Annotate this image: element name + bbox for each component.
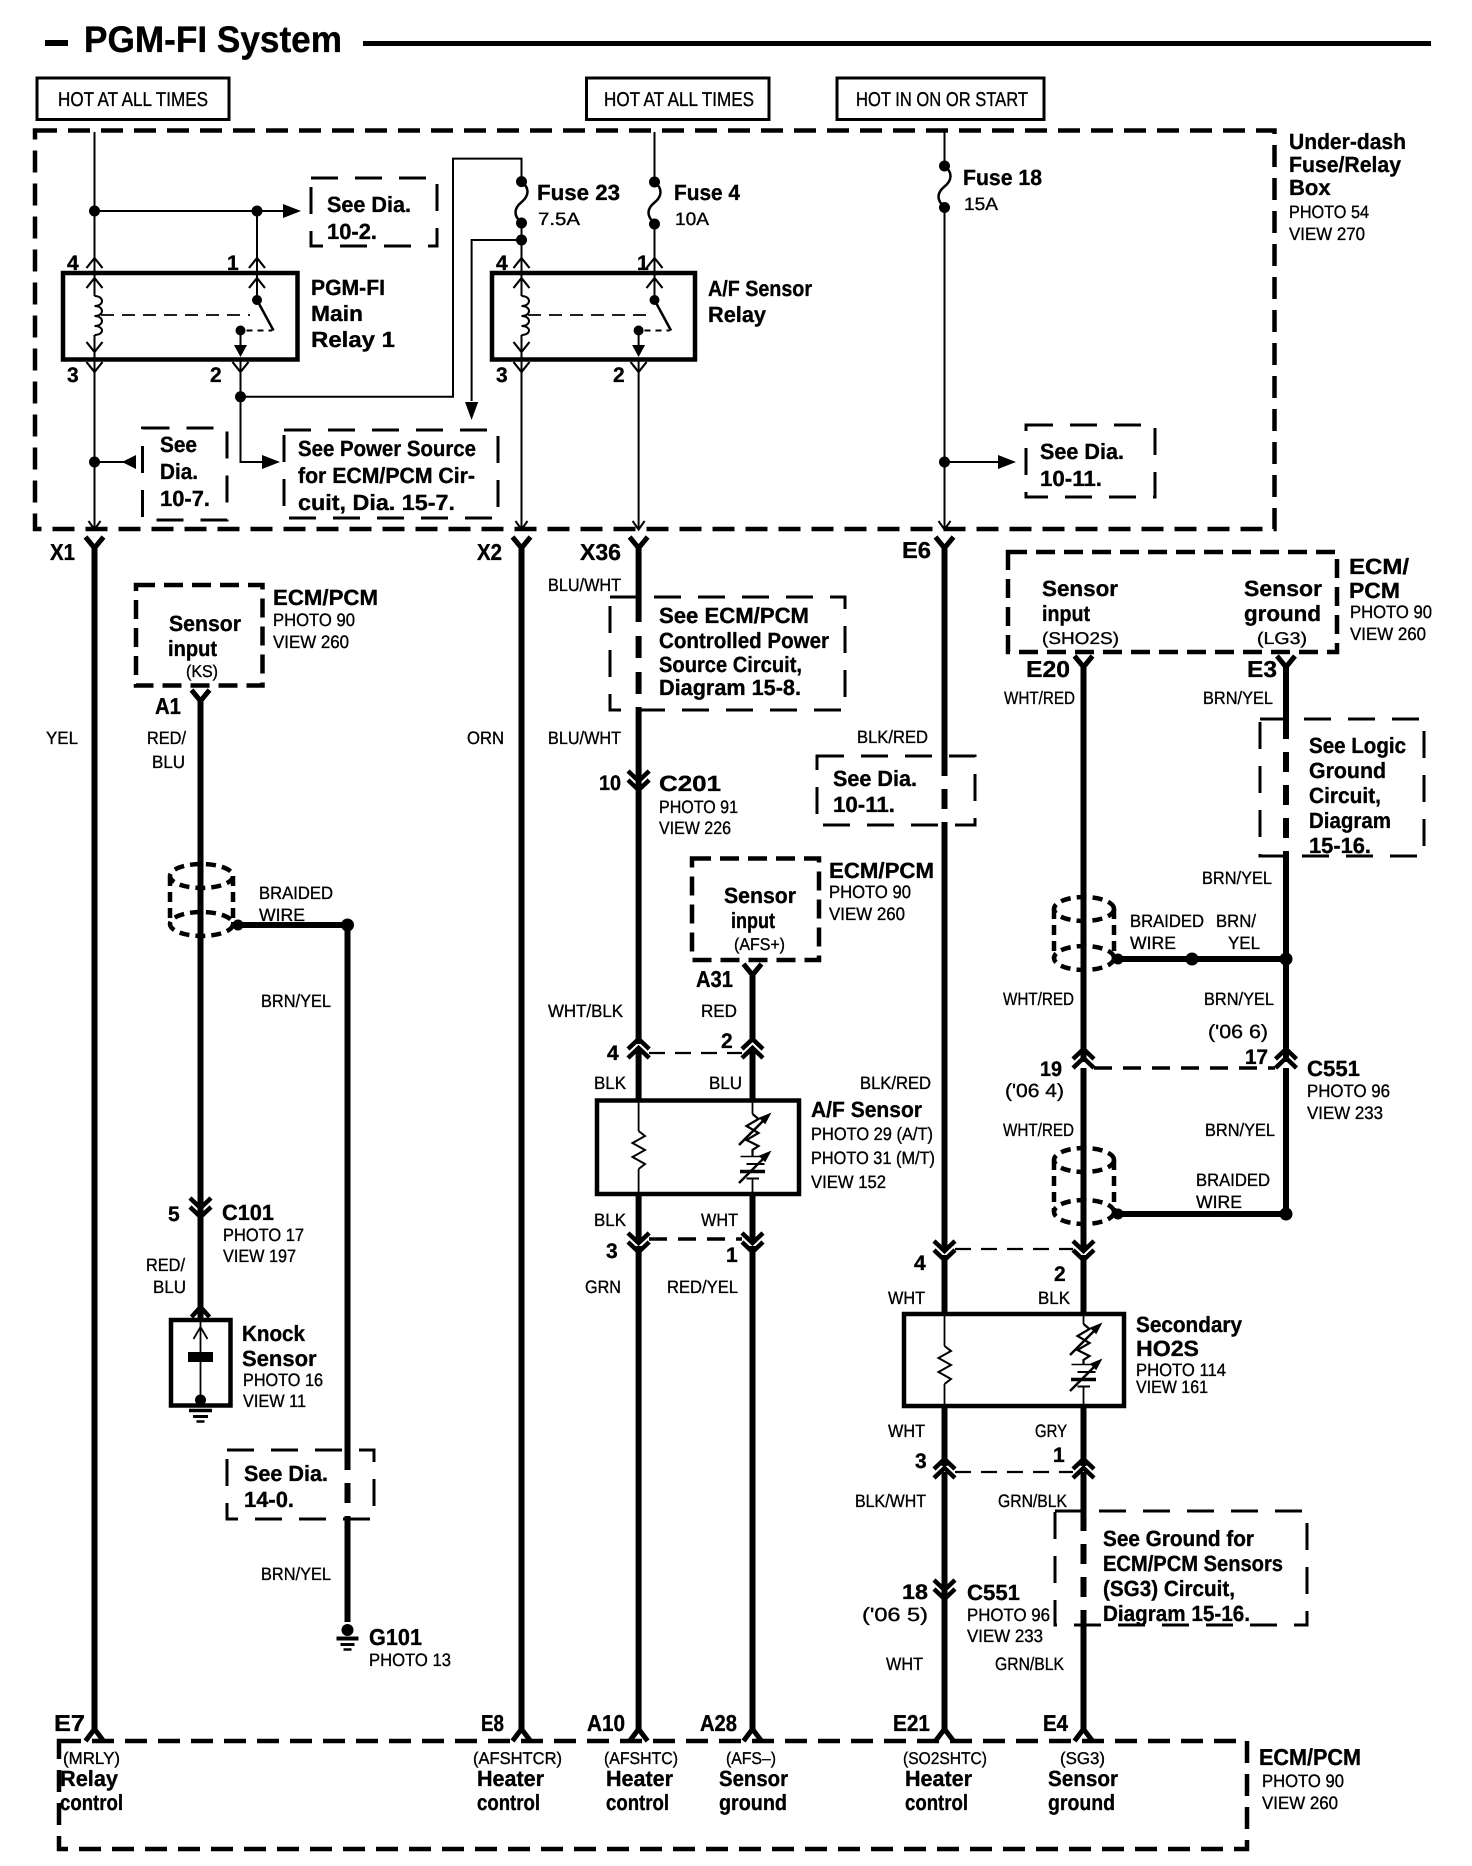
power source label: HOT AT ALL TIMES (middle) — [587, 78, 770, 120]
connector mating line pins 4-2 (dashed, HO2S) — [955, 1248, 1073, 1250]
fuse F4: Fuse 4 — [649, 177, 661, 230]
svg-text:for ECM/PCM Cir-: for ECM/PCM Cir- — [298, 463, 475, 488]
label: ECM/PCM PHOTO 90 VIEW 260 (bottom right) — [1259, 1744, 1361, 1813]
shield: braided wire cylinder on E20 (upper) — [1054, 897, 1114, 970]
junction dot on E3 — [1280, 953, 1293, 966]
svg-text:Sensor: Sensor — [724, 883, 796, 908]
relay pin 2 chevron — [233, 362, 249, 372]
wire end E21 (entry prongs) — [936, 1729, 954, 1741]
relay pin 1 chevrons — [249, 258, 265, 288]
svg-text:4: 4 — [67, 252, 79, 275]
wire E20 into HO2S pin 2 handled above; segment below HO2S to See Ground box — [1081, 1472, 1087, 1511]
svg-text:BLU: BLU — [709, 1073, 742, 1093]
svg-text:1: 1 — [637, 252, 649, 275]
connector A31 (Y symbol) — [696, 964, 762, 992]
A/F sensor heater resistor — [633, 1101, 646, 1195]
svg-text:WHT: WHT — [888, 1421, 925, 1441]
svg-text:See Ground for: See Ground for — [1103, 1526, 1254, 1551]
wire end A28 (entry prongs) — [744, 1729, 762, 1741]
A/F relay coil (pins 4-3) — [522, 273, 530, 360]
svg-text:ECM/PCM: ECM/PCM — [273, 585, 378, 610]
svg-text:('06 5): ('06 5) — [862, 1605, 928, 1626]
reference box: See Dia. 10-11. (upper) — [1026, 425, 1155, 497]
wire: BLK into HO2S — [1081, 1255, 1087, 1314]
svg-text:BLU/WHT: BLU/WHT — [548, 575, 621, 595]
svg-text:PHOTO 90: PHOTO 90 — [1262, 1771, 1344, 1791]
label: Under-dash Fuse/Relay Box — [1289, 129, 1406, 244]
svg-text:7.5A: 7.5A — [538, 209, 580, 229]
junction dot at shield — [233, 920, 244, 931]
reference box: See Logic Ground Circuit, Diagram 15-16. — [1260, 719, 1424, 858]
wire: drain dashed inside reference box — [345, 1450, 351, 1519]
label: Secondary HO2S PHOTO 114 VIEW 161 — [1136, 1312, 1243, 1397]
svg-text:(AFS+): (AFS+) — [734, 935, 785, 954]
svg-text:(KS): (KS) — [186, 662, 218, 681]
ground bars under knock sensor — [189, 1411, 212, 1422]
svg-text:Relay: Relay — [708, 302, 767, 327]
svg-text:VIEW 161: VIEW 161 — [1136, 1377, 1208, 1397]
wire exit arrow at E6 — [939, 521, 951, 530]
svg-text:BLU/WHT: BLU/WHT — [548, 728, 621, 748]
svg-text:control: control — [60, 1790, 123, 1815]
svg-text:X2: X2 — [477, 539, 502, 565]
svg-text:Ground: Ground — [1309, 758, 1386, 783]
svg-text:C201: C201 — [659, 771, 721, 796]
reference box: See Dia. 14-0. — [227, 1450, 374, 1519]
label: ECM/PCM PHOTO 90 VIEW 260 (top right) — [1349, 554, 1432, 644]
connector mating line pins 3-1 (dashed, HO2S) — [955, 1471, 1073, 1473]
svg-text:2: 2 — [1054, 1263, 1066, 1286]
wire: relay1 pin3 down to X1 — [94, 360, 96, 531]
power source label: HOT AT ALL TIMES (left) — [37, 78, 229, 120]
svg-text:VIEW 233: VIEW 233 — [967, 1626, 1043, 1646]
knock sensor element — [188, 1322, 213, 1406]
svg-text:C551: C551 — [1307, 1056, 1360, 1081]
svg-text:A31: A31 — [696, 966, 733, 992]
svg-text:18: 18 — [902, 1581, 928, 1604]
power source label: HOT IN ON OR START — [837, 78, 1044, 120]
svg-text:See Logic: See Logic — [1309, 733, 1406, 758]
wire: drop to relay pin 1 — [256, 211, 258, 273]
svg-text:BRN/YEL: BRN/YEL — [261, 991, 331, 1011]
svg-text:BLK: BLK — [594, 1073, 626, 1093]
svg-text:PHOTO 91: PHOTO 91 — [659, 797, 738, 817]
wire A31 (RED) to A/F sensor pin 2 — [750, 973, 756, 1041]
svg-text:('06 4): ('06 4) — [1005, 1081, 1064, 1102]
wire: battery feed to PGM-FI relay pin 4 — [94, 132, 96, 273]
A/F sensor cell (variable elements with arrows) — [739, 1101, 772, 1195]
svg-text:See ECM/PCM: See ECM/PCM — [659, 603, 809, 628]
svg-text:2: 2 — [721, 1030, 733, 1053]
wire X36 continues to A/F sensor pin 4 — [636, 707, 642, 1044]
svg-text:RED: RED — [701, 1001, 737, 1021]
svg-text:E3: E3 — [1247, 656, 1277, 682]
connector X36 (Y symbol) — [580, 537, 648, 565]
svg-text:See: See — [160, 432, 197, 457]
svg-text:A1: A1 — [155, 693, 181, 719]
svg-text:WIRE: WIRE — [1196, 1192, 1242, 1212]
svg-text:19: 19 — [1040, 1058, 1062, 1081]
wire: fuse 18 down to E6 — [944, 208, 946, 531]
svg-text:C551: C551 — [967, 1580, 1020, 1605]
svg-text:PHOTO 90: PHOTO 90 — [829, 882, 911, 902]
wire E3 lower segment to shield link — [1283, 1068, 1289, 1214]
label: BRAIDED WIRE (left) — [259, 883, 333, 925]
wire: GRY from HO2S pin 1 — [1081, 1406, 1087, 1466]
svg-text:VIEW 152: VIEW 152 — [811, 1172, 886, 1192]
wire: WHT from HO2S pin 3 — [942, 1406, 948, 1466]
svg-text:control: control — [477, 1790, 540, 1815]
ECM/PCM output box: Sensor input (AFS+) — [692, 859, 819, 961]
svg-text:GRN: GRN — [585, 1277, 621, 1297]
under-dash fuse/relay box (dashed enclosure) — [35, 131, 1275, 530]
wire: relay1 pin2 down and arrow to power source box — [241, 360, 281, 470]
wire end dot E3 — [1280, 1208, 1293, 1221]
reference box: See Dia. 10-7. — [143, 428, 228, 520]
wire: WHT into HO2S — [942, 1255, 948, 1314]
svg-text:Secondary: Secondary — [1136, 1312, 1243, 1337]
connector pins 4/2 chevrons (A/F sensor top) — [628, 1039, 763, 1058]
svg-text:See Power Source: See Power Source — [298, 436, 476, 461]
svg-text:10-11.: 10-11. — [1040, 466, 1102, 491]
connector X1 (Y symbol) — [50, 537, 104, 565]
svg-text:HOT AT ALL TIMES: HOT AT ALL TIMES — [58, 89, 208, 111]
ECM/PCM output box: Sensor input (KS) — [136, 585, 263, 686]
wire: shield drain link to E3 (upper) — [1112, 956, 1286, 962]
svg-text:WHT: WHT — [886, 1654, 923, 1674]
svg-text:2: 2 — [210, 364, 222, 387]
svg-text:WHT/BLK: WHT/BLK — [548, 1001, 623, 1021]
wire: ignition feed to Fuse 18 — [944, 132, 946, 166]
wire E3 continues down — [1283, 856, 1289, 1062]
svg-text:X1: X1 — [50, 539, 75, 565]
A/F relay pin 1 chevrons — [647, 258, 663, 288]
svg-text:A10: A10 — [587, 1710, 625, 1736]
wire: shield drain link to E3 (lower) — [1112, 1211, 1286, 1217]
wire X2 (ORN) to E8 — [519, 546, 525, 1729]
connector pins 4/2 chevrons (secondary HO2S top) — [934, 1241, 1094, 1260]
A/F relay pin 2 chevron — [631, 362, 647, 372]
svg-text:BLU: BLU — [152, 752, 185, 772]
svg-text:Dia.: Dia. — [160, 459, 198, 484]
wire end E8 (entry prongs) — [513, 1729, 531, 1741]
wire X36 dashed inside reference box — [636, 600, 642, 707]
svg-text:GRN/BLK: GRN/BLK — [998, 1491, 1067, 1511]
connector A1 (Y symbol) — [155, 690, 210, 719]
wire: branch arrow to See Dia. 10-2. — [95, 204, 302, 218]
svg-text:(LG3): (LG3) — [1257, 629, 1307, 648]
wire E3 dashed inside reference box — [1283, 719, 1289, 856]
wire E6 continues to secondary HO2S pin 4 — [942, 825, 948, 1249]
svg-text:Fuse/Relay: Fuse/Relay — [1289, 152, 1402, 177]
wire: BLK/WHT down from pin 3 — [942, 1472, 948, 1729]
svg-text:BRN/YEL: BRN/YEL — [1202, 868, 1272, 888]
svg-text:WHT: WHT — [888, 1288, 925, 1308]
svg-text:PHOTO 13: PHOTO 13 — [369, 1650, 451, 1670]
connector mating line pins 4-2 (dashed) — [649, 1052, 742, 1054]
reference box: See Power Source for ECM/PCM Circuit, Dia. 15-7. — [284, 430, 498, 518]
svg-text:GRY: GRY — [1035, 1421, 1067, 1441]
A/F relay pin 3 chevrons — [514, 342, 530, 372]
title: PGM-FI System — [45, 19, 1431, 60]
wire: fuse 4 to A/F relay pin 1 — [654, 224, 656, 273]
svg-text:Under-dash: Under-dash — [1289, 129, 1406, 154]
svg-text:15A: 15A — [964, 194, 998, 214]
connector X2 (Y symbol) — [477, 537, 531, 565]
svg-text:VIEW 197: VIEW 197 — [223, 1246, 296, 1266]
svg-text:VIEW 260: VIEW 260 — [829, 904, 905, 924]
svg-text:WHT/RED: WHT/RED — [1003, 1120, 1074, 1140]
svg-text:E4: E4 — [1043, 1710, 1068, 1736]
svg-text:PGM-FI System: PGM-FI System — [84, 19, 342, 60]
svg-text:Sensor: Sensor — [169, 611, 241, 636]
label: A/F Sensor PHOTO 29 (A/T) PHOTO 31 (M/T) VIEW 152 — [811, 1097, 935, 1192]
wire color label RED/BLU (lower) — [146, 1255, 186, 1297]
junction dot: fuse 23 output branch — [516, 235, 527, 246]
wire: shield drain link to BRN/YEL — [231, 922, 348, 928]
svg-text:A/F Sensor: A/F Sensor — [708, 276, 812, 301]
connector E3 (Y symbol) — [1247, 656, 1295, 682]
HO2S heater resistor — [939, 1314, 952, 1406]
svg-text:2: 2 — [613, 364, 625, 387]
svg-text:VIEW 233: VIEW 233 — [1307, 1103, 1383, 1123]
svg-text:3: 3 — [606, 1240, 618, 1263]
svg-text:Diagram: Diagram — [1309, 808, 1391, 833]
svg-text:PHOTO 29 (A/T): PHOTO 29 (A/T) — [811, 1124, 933, 1144]
svg-text:Knock: Knock — [242, 1321, 306, 1346]
wire: WHT from A/F sensor pin 1 — [750, 1194, 756, 1240]
ECM/PCM bottom box (dashed enclosure) — [59, 1741, 1247, 1849]
junction dot: relay1 pin2 branch — [235, 391, 246, 402]
svg-text:BRN/YEL: BRN/YEL — [1205, 1120, 1275, 1140]
svg-text:ORN: ORN — [467, 728, 504, 748]
relay coil (pins 4-3) — [95, 273, 103, 360]
svg-text:BRN/YEL: BRN/YEL — [1203, 688, 1273, 708]
svg-text:Main: Main — [311, 301, 363, 326]
svg-text:A28: A28 — [700, 1710, 737, 1736]
connector mating line pins 19-17 (dashed) — [1094, 1066, 1275, 1070]
value label: Fuse 23 7.5A — [537, 180, 620, 229]
wire exit arrow at X36 — [633, 521, 645, 530]
svg-text:BRN/YEL: BRN/YEL — [261, 1564, 331, 1584]
A/F relay switch blade (pin 1 to pin 2) — [632, 273, 671, 357]
svg-text:Fuse 23: Fuse 23 — [537, 180, 620, 205]
svg-text:10A: 10A — [675, 209, 709, 229]
ground G101 — [337, 1624, 359, 1650]
svg-text:10-7.: 10-7. — [160, 486, 210, 511]
shield: braided wire cylinder on A1 — [170, 864, 233, 936]
wire end chevron at knock sensor — [192, 1307, 210, 1317]
wire: relay1 pin2 loop to Fuse 23 input — [241, 159, 522, 397]
svg-text:C101: C101 — [222, 1200, 274, 1225]
svg-text:BLK/RED: BLK/RED — [860, 1073, 931, 1093]
svg-text:4: 4 — [496, 252, 508, 275]
wire color label RED/BLU (upper) — [147, 728, 186, 772]
svg-text:Sensor: Sensor — [242, 1346, 317, 1371]
svg-text:Diagram 15-16.: Diagram 15-16. — [1103, 1601, 1250, 1626]
svg-text:BLK/WHT: BLK/WHT — [855, 1491, 926, 1511]
splice dot on drain link — [1186, 953, 1199, 966]
svg-text:A/F Sensor: A/F Sensor — [811, 1097, 922, 1122]
connector E20 (Y symbol) — [1026, 656, 1093, 682]
label: C201 PHOTO 91 VIEW 226 — [659, 771, 738, 838]
svg-text:PCM: PCM — [1349, 578, 1400, 603]
wire: GRN down to A10 — [636, 1246, 642, 1729]
svg-text:VIEW 11: VIEW 11 — [243, 1391, 306, 1411]
svg-text:3: 3 — [915, 1450, 927, 1473]
wire: BLK from A/F sensor pin 3 — [636, 1194, 642, 1240]
svg-text:5: 5 — [168, 1203, 180, 1226]
junction dot at drain wire top — [341, 919, 354, 932]
label: G101 PHOTO 13 — [369, 1624, 451, 1670]
wire end E4 (entry prongs) — [1075, 1729, 1093, 1741]
svg-text:VIEW 260: VIEW 260 — [273, 632, 349, 652]
svg-text:See Dia.: See Dia. — [833, 766, 917, 791]
svg-text:4: 4 — [607, 1042, 619, 1065]
svg-text:ECM/PCM: ECM/PCM — [829, 858, 934, 883]
label: C551 PHOTO 96 VIEW 233 (upper) — [1307, 1056, 1390, 1123]
svg-text:Relay 1: Relay 1 — [311, 327, 395, 352]
svg-text:17: 17 — [1245, 1046, 1268, 1069]
svg-text:ECM/: ECM/ — [1349, 554, 1409, 579]
svg-text:ground: ground — [719, 1790, 787, 1815]
reference box: See ECM/PCM Controlled Power Source Circuit, Diagram 15-8. — [610, 597, 845, 710]
label: ECM/PCM PHOTO 90 VIEW 260 (AFS+ box) — [829, 858, 934, 924]
svg-text:GRN/BLK: GRN/BLK — [995, 1654, 1064, 1674]
wire: RED/YEL down to A28 — [750, 1246, 756, 1729]
svg-text:BLK/RED: BLK/RED — [857, 727, 928, 747]
label: Knock Sensor PHOTO 16 VIEW 11 — [242, 1321, 323, 1411]
svg-text:PHOTO 96: PHOTO 96 — [967, 1605, 1050, 1625]
svg-text:RED/YEL: RED/YEL — [667, 1277, 738, 1297]
svg-text:Heater: Heater — [477, 1766, 544, 1791]
connector C101 chevrons on A1 — [190, 1198, 211, 1217]
svg-text:control: control — [905, 1790, 968, 1815]
svg-text:Fuse 4: Fuse 4 — [674, 180, 741, 205]
connector pins 3/1 chevrons (secondary HO2S bottom) — [934, 1459, 1094, 1478]
svg-text:Sensor: Sensor — [1042, 576, 1118, 601]
svg-text:VIEW 226: VIEW 226 — [659, 818, 731, 838]
svg-text:(SG3) Circuit,: (SG3) Circuit, — [1103, 1576, 1235, 1601]
wire E3 (BRN/YEL) upper segment — [1283, 665, 1289, 719]
svg-text:PHOTO 96: PHOTO 96 — [1307, 1081, 1390, 1101]
wire end E7 (entry prongs) — [86, 1729, 104, 1741]
connector C551 chevrons on E6 — [934, 1580, 955, 1599]
svg-text:Heater: Heater — [905, 1766, 972, 1791]
connector C201 chevrons on X36 — [628, 771, 649, 790]
wire end A10 (entry prongs) — [630, 1729, 648, 1741]
label: A/F Sensor Relay — [708, 276, 812, 327]
svg-text:HOT AT ALL TIMES: HOT AT ALL TIMES — [604, 89, 754, 111]
svg-text:PHOTO 90: PHOTO 90 — [1350, 602, 1432, 622]
HO2S sensor cell (variable elements with arrows) — [1070, 1314, 1103, 1406]
svg-text:VIEW 270: VIEW 270 — [1289, 224, 1365, 244]
svg-text:3: 3 — [67, 364, 79, 387]
junction dot at shield (lower) — [1113, 1209, 1124, 1220]
svg-text:WHT/RED: WHT/RED — [1004, 688, 1075, 708]
svg-text:Source Circuit,: Source Circuit, — [659, 652, 802, 677]
svg-text:PGM-FI: PGM-FI — [311, 275, 385, 300]
svg-text:HO2S: HO2S — [1136, 1336, 1199, 1361]
wire: drain to G101 — [345, 1519, 351, 1622]
wire: arrow toward See Dia. 10-7. — [95, 455, 137, 469]
A/F relay pin 4 chevrons — [514, 258, 530, 288]
svg-text:PHOTO 16: PHOTO 16 — [243, 1370, 323, 1390]
A/F sensor box — [597, 1101, 799, 1195]
svg-text:ground: ground — [1244, 601, 1321, 626]
junction dot: branch to relay pin 1 — [252, 206, 263, 217]
svg-text:BRN/YEL: BRN/YEL — [1204, 989, 1274, 1009]
svg-text:control: control — [606, 1790, 669, 1815]
svg-text:E21: E21 — [893, 1710, 930, 1736]
wire: branch arrow down into power source box — [465, 240, 522, 420]
svg-text:See Dia.: See Dia. — [327, 192, 411, 217]
ECM/PCM output box: Sensor input (SHO2S) / Sensor ground (LG3) — [1008, 552, 1337, 652]
svg-text:14-0.: 14-0. — [244, 1487, 294, 1512]
wire E20 (WHT/RED) upper segment — [1081, 665, 1087, 1062]
wire: A/F relay pin2 down to X36 — [638, 360, 640, 531]
wire: BLK into A/F sensor — [636, 1050, 642, 1101]
svg-text:E7: E7 — [54, 1710, 85, 1736]
svg-text:1: 1 — [227, 252, 239, 275]
relay U2: A/F Sensor Relay box — [492, 273, 695, 360]
svg-text:HOT IN ON OR START: HOT IN ON OR START — [856, 89, 1028, 111]
label: C101 PHOTO 17 VIEW 197 — [222, 1200, 304, 1266]
value label: Fuse 4 10A — [674, 180, 741, 229]
wire: fuse 23 output to A/F relay pin 4 — [521, 223, 523, 273]
shield: braided wire cylinder on E20 (lower) — [1054, 1148, 1114, 1224]
relay switch blade (pin 1 to pin 2) — [234, 273, 274, 357]
svg-text:WIRE: WIRE — [259, 905, 305, 925]
svg-text:BRAIDED: BRAIDED — [1196, 1170, 1270, 1190]
wire E20 dashed inside reference box — [1081, 1511, 1087, 1625]
svg-text:ECM/PCM Sensors: ECM/PCM Sensors — [1103, 1551, 1283, 1576]
svg-text:Heater: Heater — [606, 1766, 673, 1791]
terminal label: (SG3) Sensor ground — [1048, 1749, 1118, 1815]
secondary HO2S box — [904, 1314, 1124, 1406]
label: BRAIDED WIRE (lower link) — [1196, 1170, 1270, 1212]
A/F relay mechanical link (dashed) — [528, 314, 648, 316]
reference box: See Ground for ECM/PCM Sensors (SG3) Circuit, Diagram 15-16. — [1055, 1511, 1307, 1626]
relay pin 3 chevrons — [87, 342, 103, 372]
wire E20 lower segment to E4 — [1081, 1625, 1087, 1729]
wire: shield drain BRN/YEL down — [345, 925, 351, 1450]
relay mechanical link (dashed) — [101, 314, 250, 316]
junction dot: feed branch — [89, 206, 100, 217]
svg-text:Relay: Relay — [60, 1766, 119, 1791]
svg-text:('06 6): ('06 6) — [1208, 1022, 1268, 1043]
connector E6 (Y symbol) — [902, 537, 954, 563]
fuse F23: Fuse 23 — [516, 176, 528, 228]
wire X1 (YEL) to E7 — [92, 546, 98, 1729]
wire E20 middle segment — [1081, 1068, 1087, 1249]
svg-text:1: 1 — [1053, 1444, 1065, 1467]
svg-text:input: input — [168, 636, 218, 661]
svg-text:RED/: RED/ — [146, 1255, 185, 1275]
wire exit arrow at X2 — [516, 521, 528, 530]
fuse F18: Fuse 18 — [939, 161, 951, 214]
svg-text:WHT: WHT — [701, 1210, 738, 1230]
svg-text:WHT/RED: WHT/RED — [1003, 989, 1074, 1009]
svg-text:15-16.: 15-16. — [1309, 833, 1371, 858]
connector pins 3/1 chevrons (A/F sensor bottom) — [628, 1233, 763, 1252]
svg-text:10: 10 — [599, 772, 621, 795]
wire: A/F relay pin3 down to X2 — [521, 360, 523, 531]
wire exit arrow at X1 — [89, 521, 101, 530]
svg-text:BRAIDED: BRAIDED — [1130, 911, 1204, 931]
svg-text:BLU: BLU — [153, 1277, 186, 1297]
svg-text:Sensor: Sensor — [1244, 576, 1322, 601]
